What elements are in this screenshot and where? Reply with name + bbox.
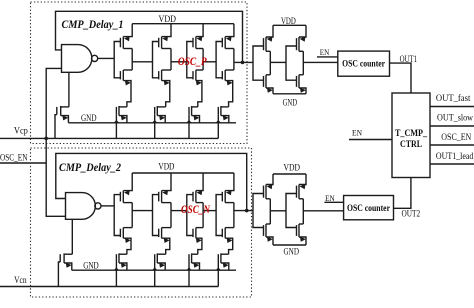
wire EN input to OSC counter 2 [324, 201, 343, 203]
dotted enclosure box CMP_Delay_2 [31, 148, 252, 297]
svg-text:GND: GND [81, 113, 97, 123]
label CMP_Delay_1 [62, 19, 124, 31]
transistor PMOS inverter stage 3 CMP_Delay_2 [193, 173, 203, 203]
junction feedback tap OSC_P [241, 61, 245, 65]
wire GND rail CMP_Delay_2 [72, 269, 236, 271]
transistor PMOS inverter stage 1 CMP_Delay_1 [120, 24, 132, 49]
label GND (CMP_Delay_1) [81, 113, 97, 123]
block OSC counter 2 [344, 196, 394, 220]
wire gate bar stage 2 CMP_Delay_2 [153, 195, 159, 236]
wire gate bar stage 4 CMP_Delay_2 [216, 195, 222, 236]
wire feedback net top (OSC_P to NAND input A) [56, 11, 243, 62]
transistor NMOS current-sink bias stage 4 CMP_Delay_2 [216, 253, 229, 286]
transistor NMOS inverter stage 1 CMP_Delay_2 [120, 228, 132, 255]
svg-text:Vcn: Vcn [14, 275, 27, 285]
wire gate bar buffer stage 2 (bottom buffer) [286, 194, 297, 228]
wire VDD rail bottom buffer [273, 173, 306, 175]
transistor PMOS buffer stage 1 (bottom buffer) [264, 174, 274, 199]
transistor NMOS current-sink bias stage 2 CMP_Delay_1 [152, 106, 166, 138]
wire output bar buffer stage 2 (bottom buffer) [302, 199, 304, 224]
wire OUT1 net (counter1 to T_CMP_CTRL) [390, 63, 412, 93]
wire OSC_EN riser to NAND inputs [46, 68, 65, 216]
junction Vcp / OSC_EN riser [44, 137, 48, 141]
svg-text:OUT1: OUT1 [400, 55, 418, 65]
wire gate bar stage 1 CMP_Delay_2 [114, 195, 120, 236]
wire OUT2 net (counter2 to T_CMP_CTRL) [394, 178, 411, 209]
wire gate bar buffer stage 1 (top buffer) [253, 46, 264, 80]
svg-text:OUT_fast: OUT_fast [436, 93, 471, 104]
wire output bar stage 3 CMP_Delay_2 [202, 203, 204, 228]
svg-text:GND: GND [284, 246, 300, 256]
svg-text:CMP_Delay_1: CMP_Delay_1 [62, 19, 124, 31]
svg-text:EN: EN [352, 127, 362, 137]
transistor NMOS bias mirror M0 (CMP_Delay_1) [55, 72, 69, 138]
label OSC_P node [178, 56, 208, 68]
label Vcn input [14, 275, 27, 285]
svg-text:OSC counter: OSC counter [347, 204, 391, 214]
transistor PMOS inverter stage 4 CMP_Delay_1 [222, 24, 234, 49]
wire output bar stage 1 CMP_Delay_2 [131, 203, 133, 228]
svg-text:CTRL: CTRL [400, 140, 422, 150]
wire output bar stage 3 CMP_Delay_1 [202, 49, 204, 71]
transistor NMOS buffer stage 2 (bottom buffer) [297, 224, 307, 245]
wire gate bar stage 4 CMP_Delay_1 [216, 42, 222, 78]
transistor PMOS buffer stage 2 (bottom buffer) [297, 174, 307, 199]
wire stage 1 output to stage 2 (CMP_Delay_1) [132, 61, 152, 63]
label VDD (top buffer) [281, 16, 296, 26]
wire gate bar buffer stage 1 (bottom buffer) [253, 194, 264, 228]
transistor NMOS inverter stage 3 CMP_Delay_2 [193, 228, 203, 255]
label VDD (CMP_Delay_1) [159, 14, 177, 24]
svg-text:OSC_EN: OSC_EN [0, 152, 28, 162]
transistor NMOS inverter stage 3 CMP_Delay_1 [193, 70, 203, 107]
NAND gate G2 (CMP_Delay_2) [66, 193, 102, 220]
svg-text:VDD: VDD [284, 163, 301, 173]
transistor PMOS buffer stage 2 (top buffer) [297, 25, 307, 51]
label GND (bottom buffer) [284, 246, 300, 256]
wire stage 3 output to stage 4 (CMP_Delay_2) [203, 210, 216, 212]
wire output bar stage 1 CMP_Delay_1 [131, 49, 133, 71]
label OUT2 [402, 210, 421, 220]
wire output bar buffer stage 1 (top buffer) [269, 51, 271, 75]
transistor NMOS inverter stage 2 CMP_Delay_1 [159, 70, 171, 107]
wire gate bar stage 3 CMP_Delay_1 [187, 42, 193, 78]
label GND (CMP_Delay_2) [83, 261, 99, 271]
block OSC counter 1 [338, 51, 390, 76]
wire VDD rail top buffer [273, 24, 306, 26]
NAND gate G1 (CMP_Delay_1) [62, 45, 98, 73]
label OSC_N node [181, 204, 211, 216]
label OUT1_lead [436, 152, 474, 162]
wire OUT_fast output [430, 106, 474, 108]
wire OSC_N output to buffer (bottom) [234, 210, 253, 212]
svg-text:OSC counter: OSC counter [342, 60, 386, 70]
label EN (top OSC counter enable) [320, 47, 330, 57]
transistor PMOS inverter stage 4 CMP_Delay_2 [222, 173, 234, 203]
wire output bar buffer stage 2 (top buffer) [302, 51, 304, 75]
dotted enclosure box CMP_Delay_1 [31, 2, 248, 144]
svg-text:CMP_Delay_2: CMP_Delay_2 [59, 162, 121, 174]
svg-text:OUT2: OUT2 [402, 210, 421, 220]
label OUT_slow [437, 114, 473, 124]
wire EN input to OSC counter 1 [317, 56, 338, 58]
wire GND rail top buffer [273, 93, 306, 95]
label OSC_EN output [441, 133, 471, 143]
label VDD (bottom buffer) [284, 163, 301, 173]
transistor PMOS buffer stage 1 (top buffer) [264, 25, 274, 51]
label OUT1 [400, 55, 418, 65]
transistor NMOS current-sink bias stage 1 CMP_Delay_1 [114, 106, 127, 138]
label EN (bottom OSC counter enable) [325, 193, 335, 203]
transistor NMOS current-sink bias stage 3 CMP_Delay_2 [186, 253, 199, 286]
wire NAND G1 output to stage 1 [98, 57, 115, 59]
label OSC_EN input [0, 152, 28, 162]
wire output bar stage 2 CMP_Delay_2 [170, 203, 172, 228]
wire output bar stage 2 CMP_Delay_1 [170, 49, 172, 71]
label OUT_fast [436, 93, 471, 104]
wire NAND G2 output to stage 1 [101, 205, 114, 207]
wire stage 3 output to stage 4 (CMP_Delay_1) [203, 61, 216, 63]
transistor NMOS current-sink bias stage 1 CMP_Delay_2 [114, 253, 127, 286]
svg-text:Vcp: Vcp [14, 126, 28, 136]
wire feedback net top (OSC_N to NAND input A) [56, 153, 247, 210]
svg-text:OSC_P: OSC_P [178, 56, 208, 68]
label VDD (CMP_Delay_2) [158, 161, 174, 171]
wire OUT1_lead output [430, 163, 474, 165]
label EN (T_CMP_CTRL enable) [352, 127, 362, 137]
transistor NMOS buffer stage 2 (top buffer) [297, 75, 307, 94]
transistor NMOS bias mirror M0 (CMP_Delay_2) [58, 219, 72, 286]
block T_CMP_CTRL [392, 93, 430, 178]
wire output bar stage 4 CMP_Delay_2 [233, 203, 235, 228]
wire VDD rail CMP_Delay_1 [132, 23, 234, 25]
svg-text:VDD: VDD [281, 16, 296, 26]
wire gate bar buffer stage 2 (top buffer) [286, 46, 297, 80]
wire Vcp bias line [0, 137, 218, 139]
label Vcp input [14, 126, 28, 136]
transistor NMOS inverter stage 1 CMP_Delay_1 [120, 70, 132, 107]
svg-text:OSC_EN: OSC_EN [441, 133, 471, 143]
label GND (top buffer) [283, 97, 298, 107]
wire stage 2 output to stage 3 (CMP_Delay_2) [171, 210, 187, 212]
transistor NMOS buffer stage 1 (bottom buffer) [264, 224, 274, 245]
wire OSC_EN input line [0, 162, 46, 164]
wire output bar buffer stage 1 (bottom buffer) [269, 199, 271, 224]
wire gate bar stage 1 CMP_Delay_1 [114, 42, 120, 78]
transistor PMOS inverter stage 2 CMP_Delay_1 [159, 24, 171, 49]
svg-text:OUT_slow: OUT_slow [437, 114, 473, 124]
transistor NMOS buffer stage 1 (top buffer) [264, 75, 274, 94]
label CMP_Delay_2 [59, 162, 121, 174]
transistor NMOS inverter stage 4 CMP_Delay_2 [222, 228, 234, 255]
wire EN input to T_CMP_CTRL [349, 139, 392, 141]
wire buffer output to OSC counter 2 [303, 210, 343, 212]
wire GND rail CMP_Delay_1 [68, 122, 236, 124]
svg-text:OUT1_lead: OUT1_lead [436, 152, 474, 162]
svg-text:EN: EN [320, 47, 330, 57]
wire OSC_EN output [430, 144, 474, 146]
wire buffer stage1 to stage2 (top) [270, 61, 286, 63]
transistor NMOS current-sink bias stage 2 CMP_Delay_2 [152, 253, 166, 286]
transistor NMOS current-sink bias stage 4 CMP_Delay_1 [216, 106, 229, 138]
svg-text:VDD: VDD [159, 14, 177, 24]
wire buffer stage1 to stage2 (bottom) [270, 210, 286, 212]
svg-text:T_CMP_: T_CMP_ [395, 129, 427, 139]
wire output bar stage 4 CMP_Delay_1 [233, 49, 235, 71]
transistor PMOS inverter stage 3 CMP_Delay_1 [193, 24, 203, 49]
svg-text:GND: GND [83, 261, 99, 271]
wire stage 2 output to stage 3 (CMP_Delay_1) [171, 61, 187, 63]
svg-text:VDD: VDD [158, 161, 174, 171]
transistor NMOS inverter stage 4 CMP_Delay_1 [222, 70, 234, 107]
wire gate bar stage 2 CMP_Delay_1 [153, 42, 159, 78]
wire GND rail bottom buffer [273, 244, 306, 246]
wire gate bar stage 3 CMP_Delay_2 [187, 195, 193, 236]
svg-text:GND: GND [283, 97, 298, 107]
wire Vcn bias line [0, 286, 218, 288]
wire VDD rail CMP_Delay_2 [132, 172, 234, 174]
wire OSC_P output to buffer (top) [234, 61, 253, 63]
transistor NMOS current-sink bias stage 3 CMP_Delay_1 [186, 106, 199, 138]
wire stage 1 output to stage 2 (CMP_Delay_2) [132, 210, 152, 212]
wire OUT_slow output [430, 125, 474, 127]
junction feedback tap OSC_N [245, 209, 249, 213]
transistor PMOS inverter stage 2 CMP_Delay_2 [159, 173, 171, 203]
transistor NMOS inverter stage 2 CMP_Delay_2 [159, 228, 171, 255]
transistor PMOS inverter stage 1 CMP_Delay_2 [120, 173, 132, 203]
wire buffer output to OSC counter 1 [303, 61, 338, 63]
svg-text:OSC_N: OSC_N [181, 204, 211, 216]
